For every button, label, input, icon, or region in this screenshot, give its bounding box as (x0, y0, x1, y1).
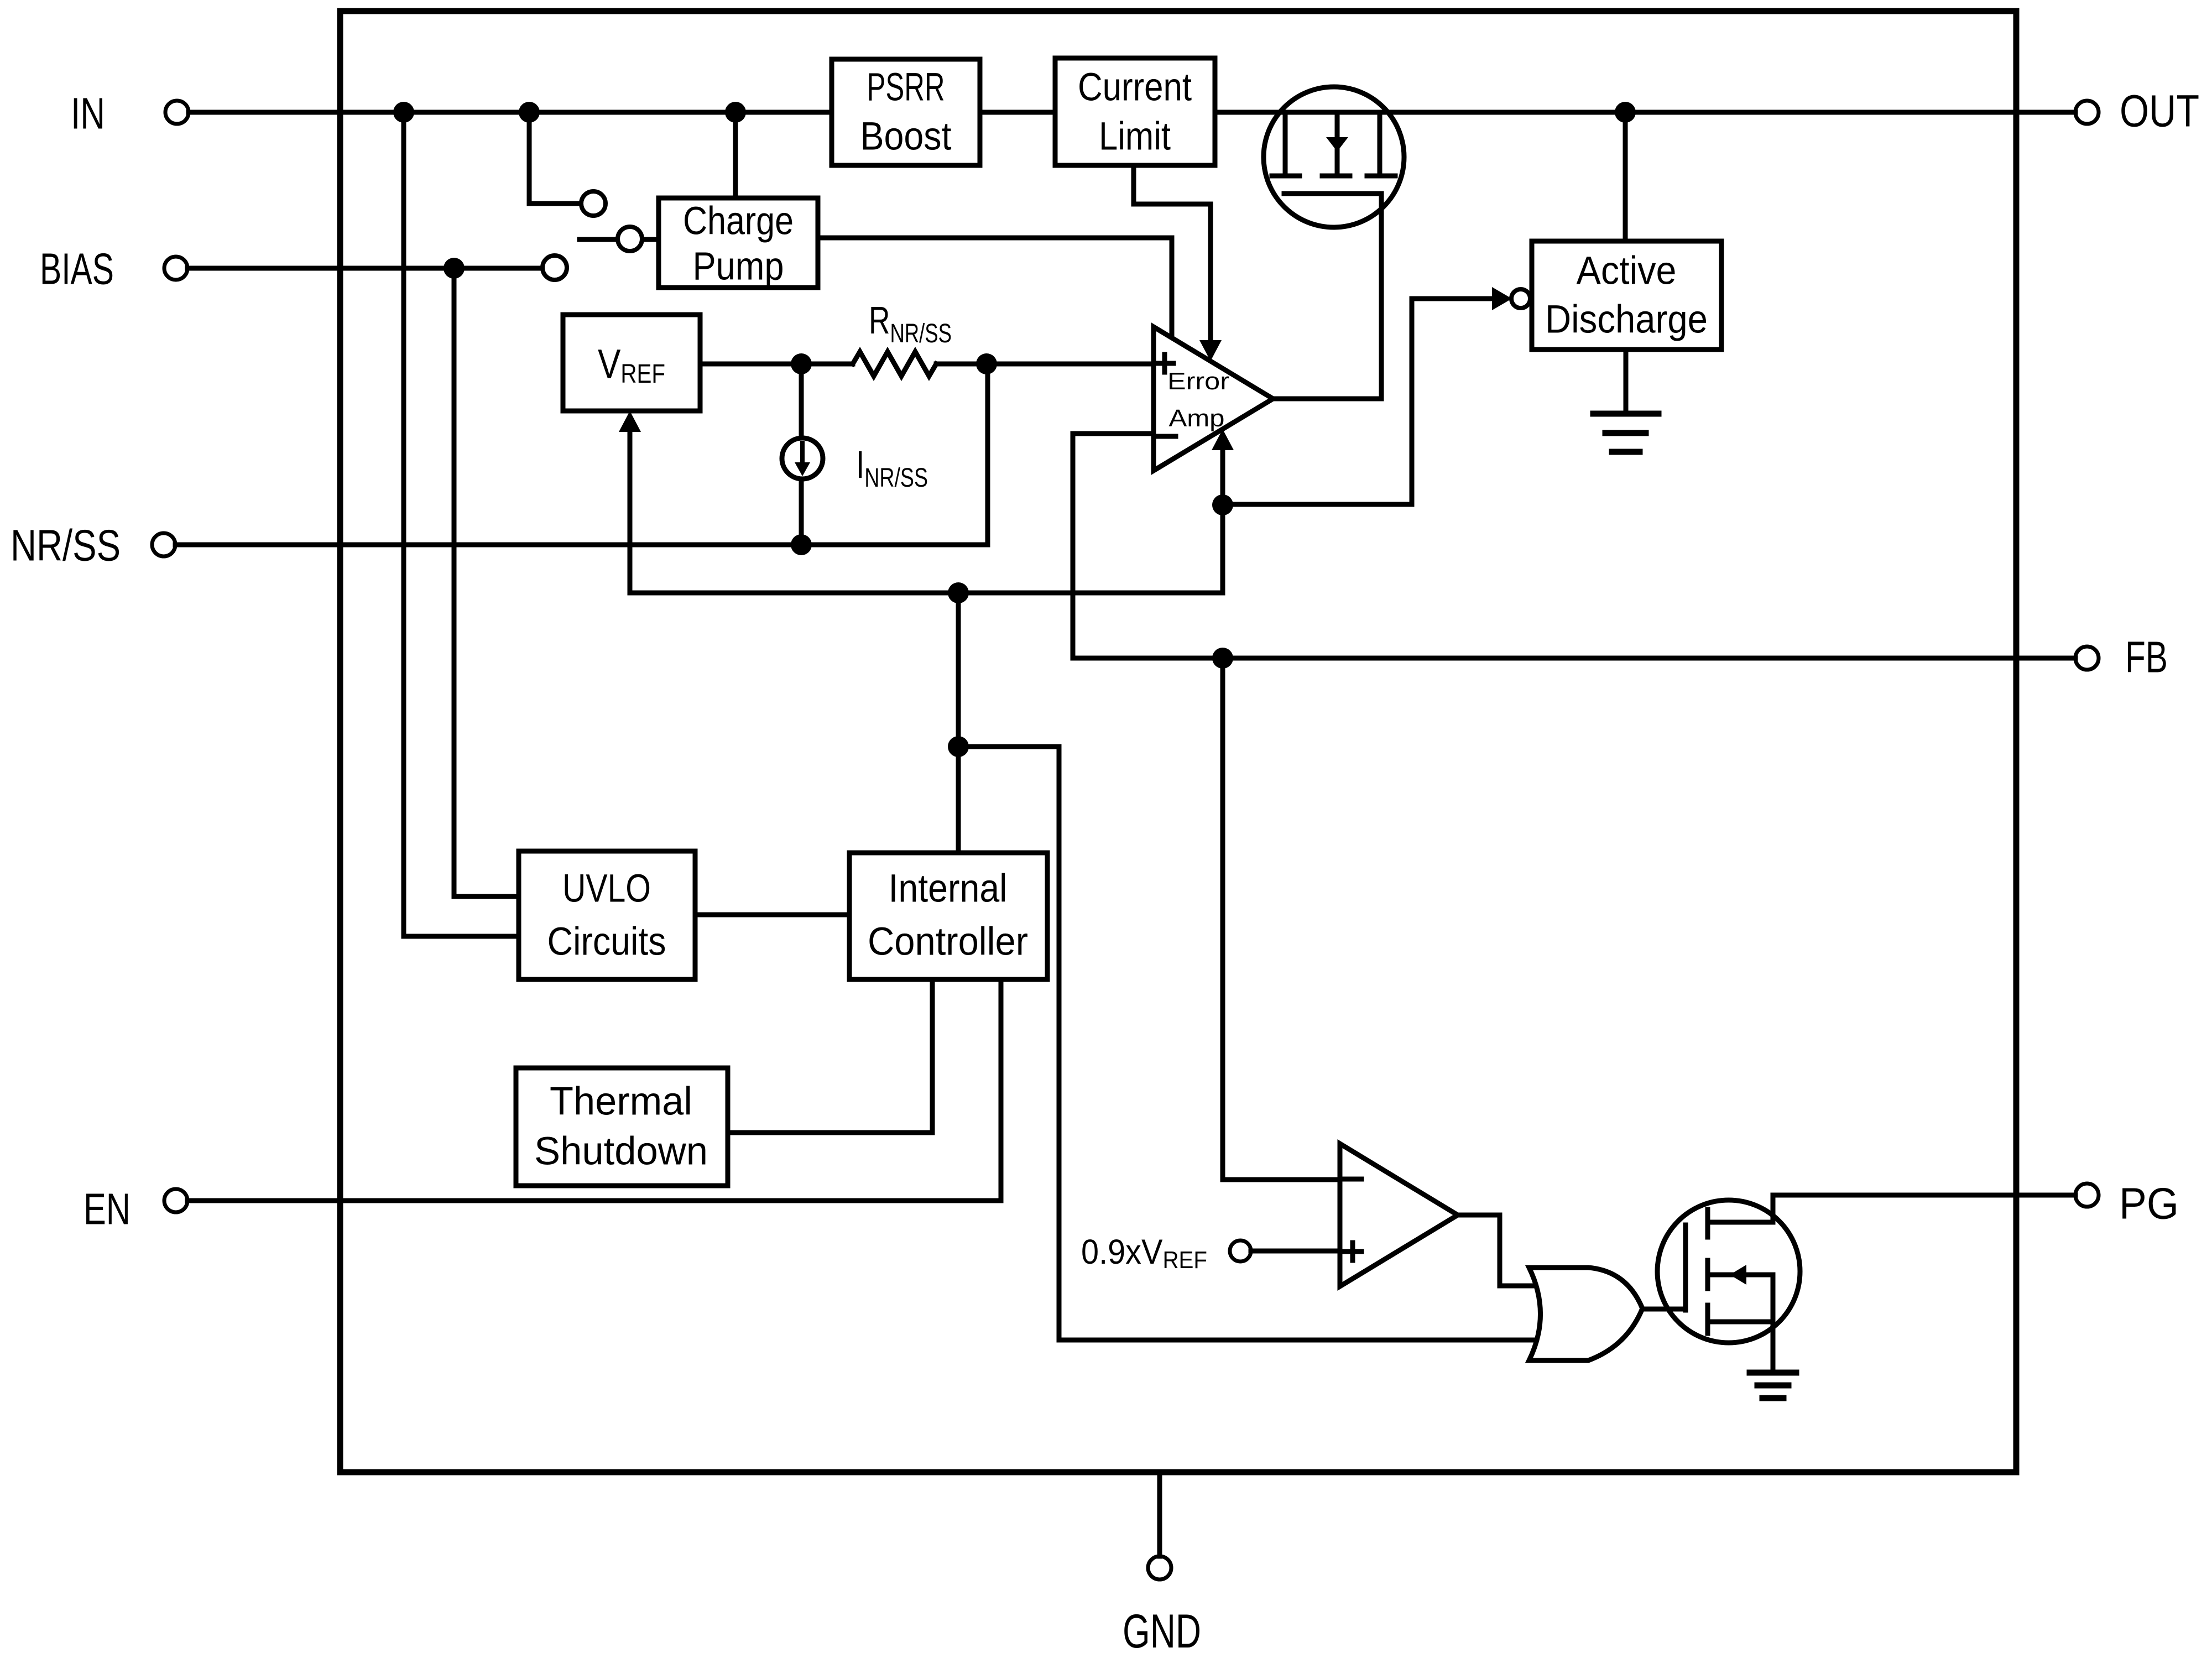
pin GND circle (1148, 1556, 1171, 1579)
current source arrow shaft (800, 443, 805, 462)
svg-text:Circuits: Circuits (547, 920, 666, 964)
OR gate G1 (1529, 1268, 1642, 1360)
junction resistor/NR-SS (976, 353, 997, 374)
pin IN circle (165, 101, 189, 124)
ground symbol below Active Discharge (1593, 411, 1658, 417)
wire PSRR to Current Limit (980, 110, 1055, 115)
box VREF (563, 315, 700, 411)
current source INR/SS circle (782, 438, 823, 479)
Q1 body diode line (1335, 112, 1340, 176)
junction NR/SS line (791, 534, 812, 555)
wire IN rail y=203 (189, 110, 832, 115)
svg-text:PSRR: PSRR (867, 66, 945, 110)
plus sign comparator (1344, 1249, 1361, 1254)
comparator U2 power good (1340, 1144, 1458, 1286)
svg-text:UVLO: UVLO (562, 867, 651, 911)
wire current limit output to error amp arrow (1134, 165, 1211, 340)
wire IN drop to UVLO (left) (404, 112, 519, 936)
svg-text:GND: GND (1123, 1605, 1201, 1658)
Q2 channel dashes (1705, 1209, 1710, 1237)
wire node vertical to error amp arrow (1220, 505, 1225, 593)
wire BIAS drop to UVLO (454, 268, 519, 896)
svg-text:Thermal: Thermal (550, 1080, 692, 1124)
arrowhead into active discharge (1492, 287, 1512, 310)
junction IN/UVLO (393, 102, 414, 123)
box Charge Pump (659, 198, 818, 288)
svg-text:Controller: Controller (868, 920, 1028, 964)
arrowhead Q2 body (1730, 1265, 1746, 1285)
box Current Limit (1055, 58, 1215, 165)
arrowhead into VREF (619, 411, 641, 432)
wire FB drop to comparator - input (1223, 658, 1340, 1180)
arrowhead current limit into error amp (1199, 340, 1222, 361)
minus sign comparator (1344, 1177, 1361, 1182)
wire error amp output to pass FET gate (1273, 194, 1381, 399)
wire UVLO to internal controller (695, 913, 849, 917)
junction IN/switch (519, 102, 540, 123)
svg-text:Limit: Limit (1099, 115, 1171, 159)
svg-text:PG: PG (2119, 1179, 2179, 1228)
Q1 gate bar (1284, 191, 1381, 196)
wire active discharge to ground (1624, 350, 1629, 414)
plus sign error amp (1156, 361, 1173, 366)
svg-text:OUT: OUT (2120, 86, 2199, 137)
box Thermal Shutdown (516, 1068, 728, 1186)
ground symbol below Q2 (1750, 1370, 1796, 1376)
Q1 drain contact (1378, 112, 1383, 171)
node 0.9xVREF terminal circle (1230, 1240, 1251, 1261)
junction error amp arrow node (1212, 494, 1233, 515)
wire PG FET drain to PG pin (1708, 1195, 2075, 1222)
wire NR/SS line (175, 364, 988, 545)
arrowhead Q1 body diode (1326, 137, 1348, 152)
junction FB node (1212, 648, 1233, 669)
box UVLO Circuits (519, 851, 695, 979)
pin BIAS circle (164, 257, 187, 280)
svg-text:Pump: Pump (693, 245, 784, 289)
wire PG FET source to ground (1708, 1322, 1773, 1373)
arrowhead current source (795, 462, 810, 476)
box Internal Controller (849, 853, 1047, 979)
svg-text:Charge: Charge (683, 200, 794, 243)
junction OUT node (1615, 102, 1636, 123)
switch lever into charge pump (580, 237, 617, 242)
wire resistor to error amp + input (936, 362, 1154, 367)
wire node branch to OR gate lower input (958, 747, 1554, 1340)
wire PG FET body contact (1708, 1275, 1773, 1322)
svg-text:Error: Error (1167, 368, 1229, 395)
wire EN to internal controller (187, 979, 1001, 1201)
svg-text:Active: Active (1577, 249, 1677, 293)
wire FB line to error amp - input (1073, 434, 2075, 658)
pin NR/SS circle (152, 533, 175, 556)
svg-text:Amp: Amp (1169, 405, 1225, 432)
box PSRR Boost (832, 59, 980, 165)
wire IN drop to switch contact (529, 112, 581, 204)
pin PG circle (2075, 1183, 2099, 1207)
pin EN circle (164, 1189, 187, 1212)
current source top lead (799, 364, 804, 437)
outer device boundary box (340, 11, 2016, 1472)
minus sign error amp (1158, 434, 1176, 439)
arrowhead node into error amp lower slope (1212, 429, 1234, 450)
svg-text:EN: EN (84, 1185, 131, 1234)
junction soft-start node (948, 582, 969, 603)
wire VREF output to resistor (700, 362, 853, 367)
junction IN/charge pump (725, 102, 746, 123)
svg-text:BIAS: BIAS (40, 244, 114, 294)
wire node to active discharge trigger (1223, 299, 1493, 504)
wire BIAS line (187, 266, 542, 271)
svg-text:IN: IN (71, 89, 105, 138)
wire switch common to charge pump (643, 237, 659, 242)
junction internal controller branch (948, 736, 969, 757)
pin FB circle (2075, 646, 2099, 670)
wire comparator output to OR gate upper input (1458, 1215, 1554, 1286)
Q1 source contact (1283, 112, 1288, 171)
svg-text:NR/SS: NR/SS (11, 521, 121, 570)
wire IN drop to charge pump top (733, 112, 738, 198)
active discharge trigger bubble (1511, 289, 1530, 308)
wire 0.9xVREF to comparator + input (1251, 1249, 1340, 1254)
pin OUT circle (2075, 101, 2099, 124)
svg-text:Internal: Internal (889, 867, 1008, 911)
wire thermal shutdown to internal controller (726, 979, 932, 1133)
svg-text:Current: Current (1078, 66, 1192, 110)
wire charge pump output to error amp top (818, 238, 1172, 338)
transistor Q2 PG NMOS circle (1657, 1200, 1800, 1343)
svg-text:FB: FB (2125, 633, 2168, 682)
Q2 gate bar (1683, 1225, 1688, 1310)
junction BIAS/UVLO (444, 258, 465, 279)
box Active Discharge (1532, 241, 1721, 350)
switch contact from BIAS (542, 256, 567, 280)
wire soft-start node to VREF arrow (628, 434, 633, 593)
transistor Q1 pass PMOS circle (1264, 87, 1404, 227)
wire arrow stub into error amp lower slope (1220, 451, 1225, 505)
op-amp U1 Error Amp (1154, 327, 1273, 471)
svg-text:Shutdown: Shutdown (534, 1130, 708, 1174)
svg-text:Discharge: Discharge (1545, 298, 1708, 342)
switch contact from IN (581, 191, 606, 216)
current source bottom lead (799, 479, 804, 545)
wire node drop to internal controller (956, 593, 961, 853)
wire OUT drop to active discharge (1623, 112, 1628, 241)
resistor RNR/SS zigzag (853, 352, 936, 376)
svg-text:Boost: Boost (860, 115, 952, 159)
wire OR gate output to PG FET gate (1642, 1307, 1686, 1312)
wire Current Limit through pass FET to OUT (1215, 110, 2075, 115)
wire node horizontal y=1076 (630, 591, 1223, 596)
junction VREF/current source (791, 353, 812, 374)
wire GND stub (1157, 1472, 1162, 1556)
switch common contact (618, 227, 642, 251)
